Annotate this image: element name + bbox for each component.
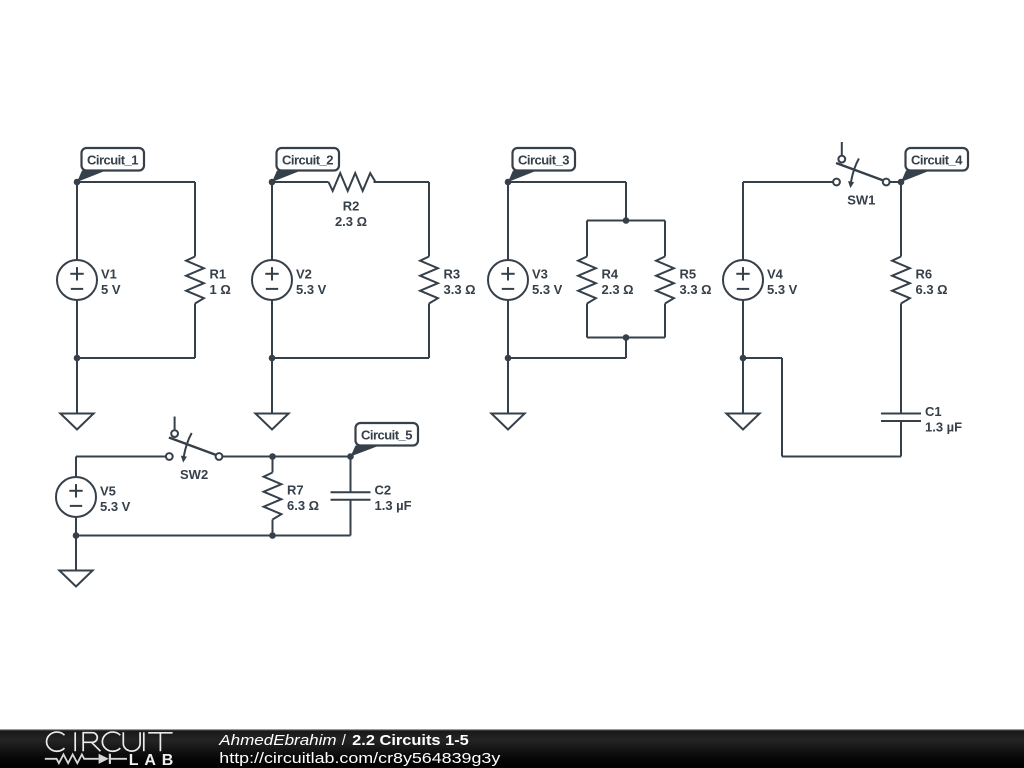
value label V2 5.3 V [296, 266, 327, 297]
node c3 parallel bottom junction [623, 334, 630, 341]
wire c1 top [77, 181, 195, 183]
svg-text:5 V: 5 V [101, 282, 121, 297]
value label R2 2.3 ohm [335, 198, 367, 229]
capacitor C2 [331, 492, 371, 500]
value label V1 5 V [101, 266, 121, 297]
value label R4 2.3 ohm [602, 266, 634, 297]
svg-text:V2: V2 [296, 266, 312, 281]
svg-text:5.3 V: 5.3 V [100, 499, 131, 514]
svg-text:R7: R7 [287, 482, 304, 497]
voltage source V5 [56, 477, 96, 517]
svg-text:5.3 V: 5.3 V [296, 282, 327, 297]
wire c2 left upper [271, 182, 273, 260]
wire c3 right branch upper [664, 221, 666, 257]
switch SW1 [833, 142, 890, 188]
node c5 flag junction [347, 453, 354, 460]
resistor R2 [329, 173, 376, 191]
svg-text:R3: R3 [444, 266, 461, 281]
value label V3 5.3 V [532, 266, 563, 297]
svg-text:SW2: SW2 [180, 467, 208, 482]
resistor R5 [656, 257, 674, 304]
wire c1 right upper [194, 182, 196, 257]
wire c4 right mid [900, 304, 902, 414]
svg-text:1.3 µF: 1.3 µF [375, 498, 412, 513]
svg-text:C1: C1 [925, 404, 942, 419]
svg-text:2.3 Ω: 2.3 Ω [335, 214, 367, 229]
value label R1 1 ohm [210, 266, 231, 297]
value label R6 6.3 ohm [916, 266, 948, 297]
wire c1 bottom [77, 357, 195, 359]
svg-text:LAB: LAB [129, 752, 174, 768]
node c3 parallel top junction [623, 217, 630, 224]
value label R3 3.3 ohm [444, 266, 476, 297]
resistor R4 [578, 257, 596, 304]
wire c2 left lower [271, 300, 273, 358]
svg-text:R4: R4 [602, 266, 619, 281]
wire c1 left lower [76, 300, 78, 358]
wire c3 mid drop [625, 182, 627, 221]
svg-text:C2: C2 [375, 482, 392, 497]
wire c5 ground stub [75, 536, 77, 571]
resistor R3 [420, 257, 438, 304]
logo resistor-diode squiggle [45, 754, 127, 764]
svg-text:3.3 Ω: 3.3 Ω [680, 282, 712, 297]
wire c1 ground stub [76, 358, 78, 414]
node flag Circuit_2 [272, 148, 339, 182]
resistor R1 [186, 257, 204, 304]
wire c4 below cap [900, 421, 902, 457]
resistor R7 [264, 473, 282, 520]
node c3 bottom junction [505, 355, 512, 362]
node c4 bottom junction [740, 355, 747, 362]
node c1 bottom junction [74, 355, 81, 362]
svg-text:Circuit_5: Circuit_5 [361, 428, 413, 443]
wire c3 mid rise [625, 338, 627, 359]
wire c3 parallel bottom rail [587, 337, 665, 339]
value label V5 5.3 V [100, 483, 131, 514]
node c5 R7 top junction [269, 453, 276, 460]
value label C2 1.3 uF [375, 482, 412, 513]
svg-text:R6: R6 [916, 266, 933, 281]
svg-text:R2: R2 [343, 198, 360, 213]
node c2 top-left junction [269, 179, 276, 186]
node flag Circuit_3 [508, 148, 575, 182]
node flag Circuit_4 [901, 148, 968, 182]
wire c5 R7 drop [272, 457, 274, 473]
voltage source V1 [57, 260, 97, 300]
wire c5 cap lower [350, 500, 352, 536]
svg-text:R1: R1 [210, 266, 227, 281]
wire c2 right upper [428, 182, 430, 257]
node c4 flag junction [898, 179, 905, 186]
wire c3 bottom [508, 357, 626, 359]
svg-text:V5: V5 [100, 483, 116, 498]
node flag Circuit_5 [351, 423, 419, 457]
svg-text:6.3 Ω: 6.3 Ω [916, 282, 948, 297]
voltage source V2 [252, 260, 292, 300]
wire c4 left lower [742, 300, 744, 358]
wire c3 left lower [507, 300, 509, 358]
node c2 bottom junction [269, 355, 276, 362]
svg-text:V1: V1 [101, 266, 117, 281]
wire c5 top left [76, 456, 166, 458]
wire c4 bottom [782, 456, 901, 458]
wire c5 bottom [76, 535, 351, 537]
svg-text:Circuit_3: Circuit_3 [518, 153, 570, 168]
footer bar [0, 729, 1024, 768]
wire c5 R7 lower [272, 520, 274, 536]
svg-text:V4: V4 [767, 266, 784, 281]
wire c3 ground stub [507, 358, 509, 414]
wire c3 parallel top rail [587, 220, 665, 222]
wire c1 right lower [194, 304, 196, 359]
svg-text:2.2 Circuits 1-5: 2.2 Circuits 1-5 [352, 733, 469, 749]
ground c5 [59, 571, 92, 587]
svg-text:6.3 Ω: 6.3 Ω [287, 498, 319, 513]
value label R7 6.3 ohm [287, 482, 319, 513]
wire c4 left rise [781, 358, 783, 457]
node c1 top-left junction [74, 179, 81, 186]
svg-text:R5: R5 [680, 266, 697, 281]
wire c2 bottom [272, 357, 429, 359]
svg-text:http://circuitlab.com/cr8y5648: http://circuitlab.com/cr8y564839g3y [219, 751, 501, 767]
wire c4 ground stub [742, 358, 744, 414]
wire c4 top left [743, 181, 833, 183]
wire c4 left upper [742, 182, 744, 260]
voltage source V3 [488, 260, 528, 300]
wire c2 top right [374, 181, 430, 183]
switch SW2 [166, 417, 223, 463]
svg-text:V3: V3 [532, 266, 548, 281]
value label R5 3.3 ohm [680, 266, 712, 297]
wire c5 left upper [75, 457, 77, 478]
wire c2 ground stub [271, 358, 273, 414]
capacitor C1 [881, 414, 921, 422]
wire c5 switch to R7 [222, 456, 350, 458]
wire c4 to node [743, 357, 782, 359]
wire c3 top [508, 181, 626, 183]
node c3 top-left junction [505, 179, 512, 186]
wire c5 left lower [75, 517, 77, 536]
ground c4 [726, 414, 759, 430]
svg-text:2.3 Ω: 2.3 Ω [602, 282, 634, 297]
wire c3 left branch upper [586, 221, 588, 257]
wire c4 right upper [900, 182, 902, 257]
wire c3 left branch lower [586, 304, 588, 338]
wire c2 right lower [428, 304, 430, 359]
value label C1 1.3 uF [925, 404, 962, 435]
value label V4 5.3 V [767, 266, 798, 297]
wire c2 top left [272, 181, 329, 183]
resistor R6 [892, 257, 910, 304]
wire c3 left upper [507, 182, 509, 260]
wire c3 right branch lower [664, 304, 666, 338]
svg-text:3.3 Ω: 3.3 Ω [444, 282, 476, 297]
node flag Circuit_1 [77, 148, 144, 182]
footer title text [218, 733, 469, 749]
node c5 bottom junction [73, 532, 80, 539]
logo CIRCUIT wordmark [47, 732, 173, 751]
svg-text:5.3 V: 5.3 V [532, 282, 563, 297]
wire c1 left upper [76, 182, 78, 260]
svg-text:Circuit_1: Circuit_1 [87, 153, 139, 168]
ground c2 [255, 414, 288, 430]
node c5 R7 bottom junction [269, 532, 276, 539]
svg-text:Circuit_2: Circuit_2 [282, 153, 334, 168]
svg-text:1 Ω: 1 Ω [210, 282, 231, 297]
svg-text:Circuit_4: Circuit_4 [911, 153, 963, 168]
ground c1 [60, 414, 93, 430]
voltage source V4 [723, 260, 763, 300]
svg-text:1.3 µF: 1.3 µF [925, 419, 962, 434]
ground c3 [491, 414, 524, 430]
wire c5 cap drop [350, 457, 352, 493]
wire c4 switch to node [890, 181, 901, 183]
svg-text:SW1: SW1 [847, 193, 875, 208]
svg-text:AhmedEbrahim: AhmedEbrahim [218, 733, 336, 749]
svg-text:5.3 V: 5.3 V [767, 282, 798, 297]
